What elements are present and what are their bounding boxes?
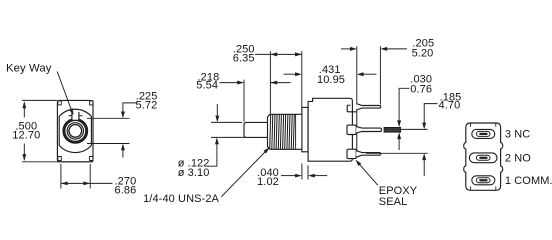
dim .431/10.95 xyxy=(284,72,377,76)
actuator hole xyxy=(69,125,82,138)
ref line bottom pin xyxy=(366,152,428,154)
terminal pin top xyxy=(356,104,381,110)
dim text 6.35 xyxy=(233,52,255,64)
dim text .250 xyxy=(233,43,255,55)
dim text .040 xyxy=(257,167,279,179)
end view terminal block xyxy=(464,123,503,190)
dim .270/6.86 extension lines xyxy=(61,164,90,189)
dim text .030 xyxy=(410,74,432,86)
dim text dia 3.10 xyxy=(178,167,210,179)
dim text .205 xyxy=(412,38,434,50)
svg-text:SEAL: SEAL xyxy=(379,196,408,208)
svg-text:5.72: 5.72 xyxy=(136,99,158,111)
terminal boss middle xyxy=(347,125,356,134)
dim text 6.86 xyxy=(115,184,137,196)
label 1/4-40 UNS-2A xyxy=(143,193,219,205)
dim text 5.54 xyxy=(196,79,218,91)
dim text 10.95 xyxy=(317,74,345,86)
svg-text:6.35: 6.35 xyxy=(233,52,255,64)
dim text 5.20 xyxy=(412,47,434,59)
keyway notch xyxy=(69,110,83,120)
terminal 1 inner xyxy=(476,178,490,183)
terminal boss bottom xyxy=(347,149,356,158)
dim dia .122/3.10 arrows xyxy=(208,104,220,166)
svg-text:3 NC: 3 NC xyxy=(505,129,530,141)
epoxy leader xyxy=(355,160,377,186)
bushing flange xyxy=(302,107,308,151)
terminal 1 outer xyxy=(472,176,495,185)
dim .205/5.20 xyxy=(341,47,407,51)
svg-text:0.76: 0.76 xyxy=(410,84,432,96)
threaded bushing 1/4-40 xyxy=(268,114,302,149)
dim .040/1.02 arrows xyxy=(281,174,327,178)
ext line pin tips xyxy=(379,46,381,104)
dim text 1.02 xyxy=(257,176,279,188)
front view case outline xyxy=(57,100,93,161)
svg-text:2 NO: 2 NO xyxy=(505,153,531,165)
label SEAL xyxy=(379,196,408,208)
dim text 5.72 xyxy=(136,99,158,111)
dim text .185 xyxy=(440,92,462,104)
label 3 NC xyxy=(505,129,530,141)
svg-text:ø 3.10: ø 3.10 xyxy=(178,167,210,179)
epoxy seal face xyxy=(356,104,358,158)
dim .218/5.54 xyxy=(220,81,291,85)
label EPOXY xyxy=(379,185,418,197)
svg-text:EPOXY: EPOXY xyxy=(379,185,418,197)
dim .270/6.86 line and arrows xyxy=(61,182,113,186)
dim text dia .122 xyxy=(178,158,210,170)
ext line body right xyxy=(356,46,358,103)
switch body case xyxy=(308,98,352,161)
dim .250/6.35 xyxy=(255,52,302,56)
svg-text:12.70: 12.70 xyxy=(12,129,40,141)
dim text .270 xyxy=(115,175,137,187)
svg-text:5.54: 5.54 xyxy=(196,79,218,91)
svg-text:6.86: 6.86 xyxy=(115,184,137,196)
svg-text:Key Way: Key Way xyxy=(6,62,52,74)
dim dia .122/3.10 extension lines xyxy=(211,122,246,137)
ext line thread start xyxy=(269,51,271,114)
dim text .218 xyxy=(198,71,220,83)
terminal pin bottom xyxy=(356,151,381,157)
end view corner marks xyxy=(471,123,496,189)
bushing inner ring xyxy=(67,123,83,139)
dim .500/12.70 extension lines xyxy=(22,100,93,161)
label 2 NO xyxy=(505,153,531,165)
thread leader xyxy=(221,147,269,197)
label 1 COMM. xyxy=(505,175,552,187)
ext line flange face xyxy=(301,51,303,107)
label Key Way xyxy=(6,62,52,74)
terminal pin middle xyxy=(356,127,381,133)
dim text .500 xyxy=(15,120,37,132)
svg-text:10.95: 10.95 xyxy=(317,74,345,86)
dim text .431 xyxy=(319,64,341,76)
dim .185/4.70 xyxy=(422,104,437,176)
dim text 4.70 xyxy=(439,100,461,112)
ext line shaft tip xyxy=(243,80,245,122)
dim .225/5.72 extension lines xyxy=(87,118,130,143)
dim text 12.70 xyxy=(12,129,40,141)
svg-text:1/4-40 UNS-2A: 1/4-40 UNS-2A xyxy=(143,193,219,205)
svg-text:5.20: 5.20 xyxy=(412,47,434,59)
dim .030/0.76 xyxy=(397,88,409,150)
Key Way leader xyxy=(57,72,73,116)
terminal 3 outer xyxy=(472,129,495,138)
svg-text:1 COMM.: 1 COMM. xyxy=(505,175,552,187)
terminal 2 inner xyxy=(476,155,490,160)
dim text 0.76 xyxy=(410,84,432,96)
dim .040/1.02 extension lines xyxy=(302,164,308,180)
dim text .225 xyxy=(136,90,158,102)
bushing outline double-D xyxy=(59,109,91,152)
ref line middle pin center xyxy=(401,128,428,130)
svg-text:4.70: 4.70 xyxy=(439,100,461,112)
dim .225/5.72 arrows xyxy=(121,103,137,158)
terminal 2 outer xyxy=(469,153,497,163)
svg-text:1.02: 1.02 xyxy=(257,176,279,188)
front view corner tabs xyxy=(58,101,93,161)
actuator shaft xyxy=(244,122,268,137)
terminal 3 inner xyxy=(476,131,490,136)
dim .500/12.70 line and arrows xyxy=(22,101,26,160)
bushing thick ring xyxy=(64,119,87,142)
pin section for .030 xyxy=(384,128,401,133)
terminal boss top xyxy=(347,105,356,112)
